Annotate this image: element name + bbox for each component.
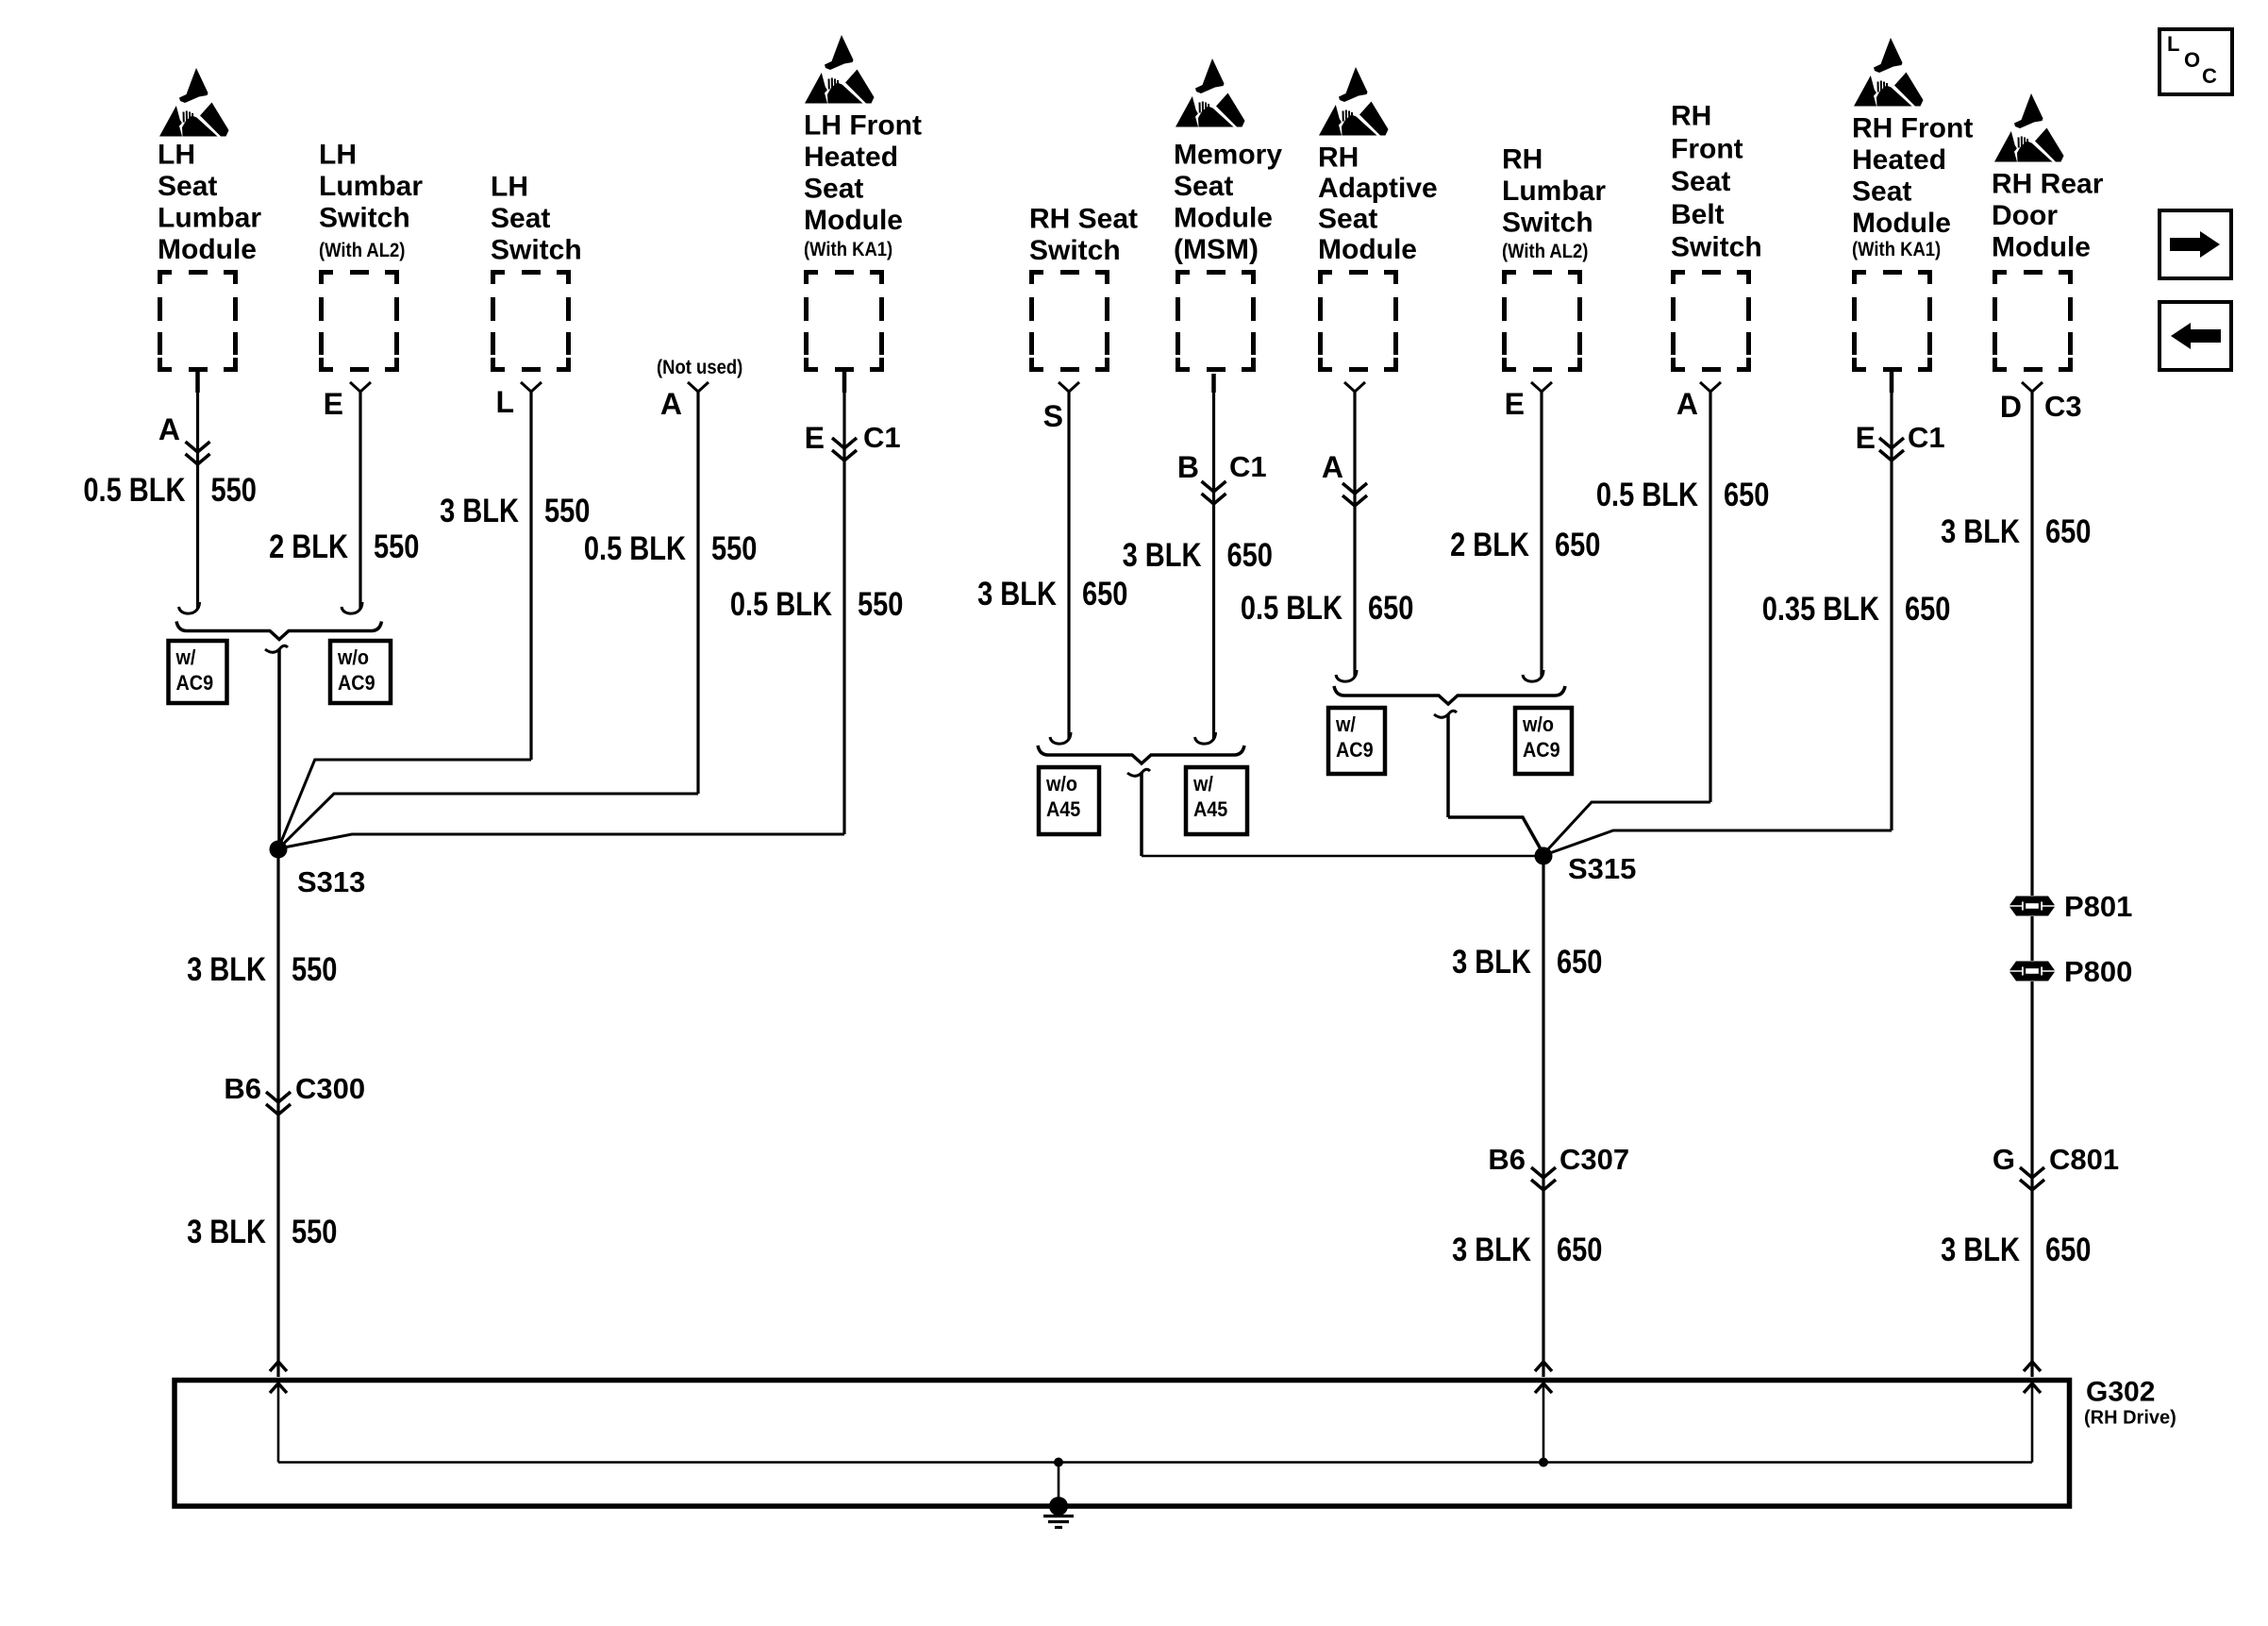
svg-text:A: A [660, 387, 682, 421]
svg-text:E: E [805, 421, 825, 455]
svg-text:RH: RH [1318, 142, 1359, 174]
svg-text:650: 650 [1368, 590, 1413, 627]
svg-text:Lumbar: Lumbar [319, 171, 423, 202]
svg-text:650: 650 [2045, 513, 2091, 550]
svg-text:Module: Module [1852, 208, 1951, 239]
svg-text:0.5 BLK: 0.5 BLK [83, 472, 185, 509]
svg-text:Front: Front [1671, 133, 1743, 164]
svg-text:650: 650 [1724, 477, 1769, 513]
svg-text:0.5 BLK: 0.5 BLK [584, 530, 686, 567]
svg-text:Lumbar: Lumbar [158, 203, 261, 234]
svg-text:C1: C1 [863, 421, 901, 454]
svg-text:LH: LH [491, 172, 528, 203]
svg-text:Door: Door [1992, 200, 2058, 231]
svg-text:G: G [1993, 1143, 2015, 1176]
svg-text:(With KA1): (With KA1) [1852, 239, 1941, 260]
svg-text:RH Rear: RH Rear [1992, 169, 2104, 200]
svg-text:3 BLK: 3 BLK [187, 951, 266, 988]
svg-text:0.5 BLK: 0.5 BLK [730, 586, 832, 623]
svg-text:(Not used): (Not used) [657, 357, 742, 378]
svg-text:650: 650 [1227, 537, 1273, 574]
svg-text:S315: S315 [1568, 852, 1636, 885]
svg-text:3 BLK: 3 BLK [187, 1214, 266, 1250]
svg-text:Belt: Belt [1671, 199, 1725, 230]
svg-text:L: L [495, 385, 514, 419]
svg-text:A: A [1322, 450, 1343, 484]
svg-text:C3: C3 [2044, 390, 2082, 423]
svg-text:Module: Module [1174, 203, 1273, 234]
svg-text:Adaptive: Adaptive [1318, 173, 1438, 204]
svg-text:L: L [2167, 32, 2179, 56]
svg-text:0.35 BLK: 0.35 BLK [1762, 591, 1879, 628]
svg-text:0.5 BLK: 0.5 BLK [1241, 590, 1342, 627]
svg-text:w/: w/ [175, 646, 196, 669]
svg-text:P801: P801 [2064, 890, 2132, 923]
svg-text:A45: A45 [1046, 798, 1081, 821]
svg-text:w/o: w/o [1522, 713, 1554, 736]
svg-text:2 BLK: 2 BLK [1450, 527, 1529, 563]
svg-text:Seat: Seat [1852, 176, 1911, 208]
svg-text:C801: C801 [2049, 1143, 2119, 1176]
svg-text:RH: RH [1671, 101, 1711, 132]
svg-text:(With AL2): (With AL2) [319, 240, 405, 261]
svg-text:RH Front: RH Front [1852, 113, 1973, 144]
svg-text:A: A [158, 412, 180, 446]
svg-text:E: E [324, 387, 343, 421]
svg-text:550: 550 [858, 586, 903, 623]
svg-text:Module: Module [804, 205, 903, 236]
svg-text:3 BLK: 3 BLK [1941, 1232, 2020, 1268]
svg-text:D: D [2000, 390, 2022, 424]
svg-text:LH Front: LH Front [804, 110, 922, 142]
svg-text:650: 650 [1555, 527, 1600, 563]
svg-text:C307: C307 [1559, 1143, 1629, 1176]
svg-text:w/: w/ [1192, 773, 1213, 796]
svg-text:650: 650 [1082, 576, 1127, 612]
svg-text:G302: G302 [2086, 1377, 2155, 1408]
svg-text:Switch: Switch [491, 235, 582, 266]
svg-text:Switch: Switch [1029, 235, 1121, 266]
svg-text:3 BLK: 3 BLK [1123, 537, 1202, 574]
svg-text:Heated: Heated [1852, 144, 1946, 176]
svg-text:3 BLK: 3 BLK [440, 493, 519, 529]
svg-text:P800: P800 [2064, 955, 2132, 988]
svg-text:LH: LH [319, 140, 357, 171]
svg-text:E: E [1505, 387, 1525, 421]
svg-text:650: 650 [1557, 1232, 1602, 1268]
svg-text:550: 550 [292, 1214, 337, 1250]
svg-text:(With KA1): (With KA1) [804, 239, 892, 260]
svg-text:AC9: AC9 [338, 672, 375, 695]
svg-text:Module: Module [158, 234, 257, 265]
svg-text:(With AL2): (With AL2) [1502, 241, 1588, 262]
svg-text:Lumbar: Lumbar [1502, 176, 1606, 207]
svg-text:w/o: w/o [1045, 773, 1077, 796]
svg-text:(MSM): (MSM) [1174, 234, 1259, 265]
svg-text:AC9: AC9 [176, 672, 214, 695]
svg-text:550: 550 [544, 493, 590, 529]
svg-text:550: 550 [374, 528, 419, 565]
svg-text:Seat: Seat [804, 174, 863, 205]
svg-text:E: E [1856, 421, 1876, 455]
svg-text:3 BLK: 3 BLK [977, 576, 1057, 612]
svg-text:Module: Module [1992, 232, 2091, 263]
svg-text:Seat: Seat [1318, 204, 1377, 235]
svg-text:B: B [1177, 450, 1199, 484]
svg-text:w/o: w/o [337, 646, 369, 669]
svg-text:RH Seat: RH Seat [1029, 204, 1138, 235]
svg-text:(RH Drive): (RH Drive) [2084, 1407, 2176, 1428]
svg-text:Heated: Heated [804, 142, 898, 173]
svg-text:w/: w/ [1335, 713, 1356, 736]
svg-text:3 BLK: 3 BLK [1452, 944, 1531, 981]
svg-text:650: 650 [1905, 591, 1950, 628]
svg-text:S: S [1043, 399, 1063, 433]
svg-text:Memory: Memory [1174, 140, 1282, 171]
svg-text:Module: Module [1318, 234, 1417, 265]
svg-text:A45: A45 [1193, 798, 1228, 821]
svg-text:2 BLK: 2 BLK [269, 528, 348, 565]
svg-text:LH: LH [158, 140, 195, 171]
svg-text:C: C [2202, 64, 2217, 88]
svg-text:650: 650 [2045, 1232, 2091, 1268]
svg-text:Switch: Switch [319, 203, 410, 234]
svg-text:Seat: Seat [1174, 171, 1233, 202]
svg-text:AC9: AC9 [1336, 739, 1374, 762]
svg-text:0.5 BLK: 0.5 BLK [1596, 477, 1698, 513]
svg-text:550: 550 [292, 951, 337, 988]
svg-text:550: 550 [711, 530, 757, 567]
svg-text:Seat: Seat [1671, 166, 1730, 197]
svg-text:C1: C1 [1908, 421, 1945, 454]
svg-text:O: O [2184, 48, 2200, 72]
svg-text:C300: C300 [295, 1072, 365, 1105]
svg-text:3 BLK: 3 BLK [1452, 1232, 1531, 1268]
svg-text:B6: B6 [1488, 1143, 1526, 1176]
svg-text:RH: RH [1502, 144, 1543, 176]
svg-text:Seat: Seat [158, 171, 217, 202]
svg-text:650: 650 [1557, 944, 1602, 981]
svg-text:Seat: Seat [491, 203, 550, 234]
svg-text:B6: B6 [224, 1072, 261, 1105]
svg-text:Switch: Switch [1502, 208, 1593, 239]
svg-text:S313: S313 [297, 865, 365, 898]
svg-text:C1: C1 [1229, 450, 1267, 483]
svg-text:Switch: Switch [1671, 232, 1762, 263]
svg-text:3 BLK: 3 BLK [1941, 513, 2020, 550]
svg-text:A: A [1676, 387, 1698, 421]
svg-text:AC9: AC9 [1523, 739, 1560, 762]
svg-text:550: 550 [211, 472, 257, 509]
